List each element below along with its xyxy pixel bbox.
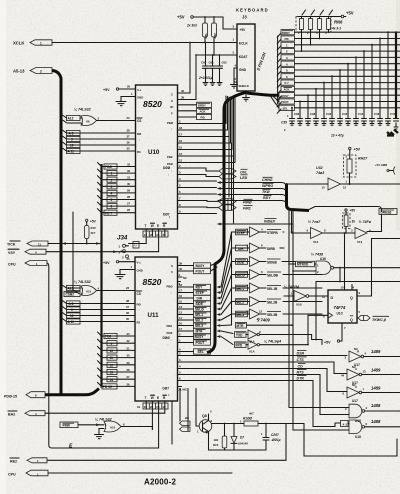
svg-text:24: 24 bbox=[163, 233, 167, 237]
svg-text:+5V: +5V bbox=[103, 261, 110, 265]
svg-text:DRESβ: DRESβ bbox=[381, 210, 392, 214]
wire VSY net bbox=[46, 250, 159, 253]
RN6 adjustment tick marks bbox=[302, 10, 333, 15]
svg-text:FIR1: FIR1 bbox=[243, 207, 251, 211]
wire reset net horizontal to right edge bbox=[315, 282, 400, 341]
svg-text:DIR: DIR bbox=[238, 247, 244, 251]
wire reset output routing bottom right bbox=[304, 424, 397, 457]
node POUT from U11 pin 40 bbox=[178, 267, 218, 274]
svg-text:BUSY: BUSY bbox=[281, 94, 289, 98]
svg-text:4x 3-1: 4x 3-1 bbox=[331, 27, 341, 31]
svg-text:NC: NC bbox=[183, 276, 187, 280]
node A10 to U10 RS2 pin 36 bbox=[61, 141, 136, 148]
svg-text:U12: U12 bbox=[357, 240, 363, 244]
node A11 to U11 pin 35 bbox=[61, 317, 135, 324]
svg-text:23: 23 bbox=[127, 116, 131, 120]
svg-text:4k7: 4k7 bbox=[248, 412, 254, 416]
svg-text:1488: 1488 bbox=[371, 419, 381, 424]
svg-text:44: 44 bbox=[341, 374, 345, 378]
svg-text:A5-13: A5-13 bbox=[13, 69, 25, 74]
svg-text:32: 32 bbox=[127, 339, 131, 343]
input flag FIR0 bbox=[219, 199, 253, 205]
svg-text:VSY: VSY bbox=[8, 251, 16, 255]
wire U12a out to U12b in bbox=[323, 232, 356, 234]
svg-text:SEL3: SEL3 bbox=[195, 324, 203, 328]
svg-text:18: 18 bbox=[179, 283, 183, 287]
node SEL lower from U11 bbox=[178, 348, 211, 355]
svg-text:30: 30 bbox=[127, 182, 131, 186]
buffer STEP 7409 bbox=[232, 227, 285, 237]
buffer SEL0 7409 bbox=[232, 270, 323, 280]
wires RN6 pulldown drops to bus lines bbox=[298, 30, 329, 52]
ground at J3 GND pin bbox=[231, 64, 238, 89]
svg-text:DTR: DTR bbox=[297, 376, 305, 380]
svg-text:11: 11 bbox=[110, 356, 114, 360]
node DSR bbox=[280, 350, 347, 355]
svg-text:MTRXD: MTRXD bbox=[297, 263, 309, 267]
svg-text:C35: C35 bbox=[281, 121, 287, 125]
NAND gate U16 half 7438 bbox=[311, 253, 334, 275]
svg-text:16: 16 bbox=[179, 294, 183, 298]
svg-text:C36: C36 bbox=[294, 112, 300, 116]
svg-text:2x 3k3: 2x 3k3 bbox=[186, 24, 197, 28]
svg-text:½ 74Fø: ½ 74Fø bbox=[359, 220, 372, 224]
svg-text:8520: 8520 bbox=[143, 277, 162, 287]
U11 serial rows DSR CTS CD RTS DTR bbox=[178, 352, 281, 381]
connector arrow CPU (E clock) bbox=[8, 261, 47, 267]
buffer SIDE 7409 bbox=[232, 257, 296, 267]
svg-text:25: 25 bbox=[156, 405, 160, 409]
receiver U17a 1489 bbox=[345, 347, 400, 367]
svg-text:39: 39 bbox=[181, 96, 185, 100]
svg-text:RDY: RDY bbox=[263, 196, 271, 200]
svg-text:+5V: +5V bbox=[90, 220, 97, 224]
diode D7 1N4148 bbox=[231, 424, 248, 451]
svg-text:BA2: BA2 bbox=[8, 413, 15, 417]
node CD bbox=[280, 363, 347, 391]
connector arrow AS-13 bbox=[13, 68, 52, 74]
svg-text:13: 13 bbox=[322, 186, 326, 190]
input flag FIR1 bbox=[219, 205, 253, 211]
svg-text:CPU: CPU bbox=[8, 473, 16, 477]
connector arrow PD0-15 bbox=[4, 392, 45, 399]
svg-text:12: 12 bbox=[343, 186, 347, 190]
svg-text:NC: NC bbox=[352, 383, 356, 387]
svg-text:3C: 3C bbox=[170, 105, 174, 109]
+5V to U10 Vcc pin 20 bbox=[103, 85, 136, 93]
CIA U11 8520 bbox=[135, 257, 178, 401]
svg-text:PDØ-15: PDØ-15 bbox=[4, 395, 17, 399]
svg-text:C47: C47 bbox=[390, 112, 396, 116]
svg-text:DIRB: DIRB bbox=[267, 247, 275, 251]
svg-text:9: 9 bbox=[71, 138, 73, 142]
svg-text:38: 38 bbox=[127, 129, 131, 133]
svg-text:SEL2: SEL2 bbox=[236, 300, 244, 304]
svg-text::: : bbox=[168, 343, 169, 347]
svg-text:E: E bbox=[157, 396, 159, 400]
filter capacitor row C36-C47 bbox=[290, 32, 396, 125]
svg-text:R10: R10 bbox=[91, 226, 97, 230]
riser band continuation downward bbox=[229, 137, 234, 224]
svg-text:W: W bbox=[151, 224, 154, 228]
wire FF bottom stub to +5V bbox=[324, 323, 346, 345]
wire FF preset feed from U12 line bbox=[344, 232, 346, 290]
svg-text:DØØ: DØØ bbox=[163, 336, 171, 340]
svg-text:SHIELD: SHIELD bbox=[239, 84, 249, 88]
svg-text::: : bbox=[168, 173, 169, 177]
wire +5V rail to J3 pin 3 bbox=[193, 16, 237, 29]
svg-text:26: 26 bbox=[127, 208, 131, 212]
buffer SEL2 7409 bbox=[232, 297, 323, 307]
svg-text:A 8: A 8 bbox=[69, 132, 74, 136]
svg-text:C62: C62 bbox=[222, 61, 228, 65]
connector arrow BAS bbox=[8, 411, 45, 417]
svg-text:RDY: RDY bbox=[196, 286, 204, 290]
svg-text:CD: CD bbox=[298, 364, 304, 368]
svg-text:PB9: PB9 bbox=[167, 324, 173, 328]
svg-text:19: 19 bbox=[144, 405, 148, 409]
capacitor C61 on KDAT bbox=[209, 54, 216, 85]
svg-text:PDØ: PDØ bbox=[105, 165, 112, 169]
svg-text::: : bbox=[171, 338, 172, 342]
wire U16 second input bbox=[292, 270, 316, 272]
svg-text:Q: Q bbox=[350, 296, 353, 300]
svg-text:13: 13 bbox=[179, 305, 183, 309]
U11 pin 21 NC stub bbox=[178, 387, 188, 392]
svg-text:TXD: TXD bbox=[236, 333, 243, 337]
svg-text:STEP: STEP bbox=[237, 231, 246, 235]
svg-text:2: 2 bbox=[111, 178, 113, 182]
node BUSY from U11 pin 39 bbox=[178, 262, 219, 269]
svg-text:SEL2: SEL2 bbox=[195, 319, 203, 323]
svg-text:D: D bbox=[331, 296, 334, 300]
vertical riser band from U10 to parallel bus bbox=[226, 96, 235, 163]
CIA U10 8520 bbox=[136, 85, 178, 229]
node P0 from U10 bbox=[178, 114, 212, 119]
svg-text:36: 36 bbox=[127, 141, 131, 145]
svg-text:Q: Q bbox=[350, 318, 353, 322]
svg-text:37: 37 bbox=[127, 135, 131, 139]
svg-text:10: 10 bbox=[70, 314, 74, 318]
ground at U10 GND pin 1 bbox=[116, 92, 136, 106]
node CS2 input bbox=[64, 291, 80, 296]
svg-text:ACK: ACK bbox=[284, 88, 290, 92]
wire U15b output to U11 W pin bbox=[121, 427, 152, 430]
wire U6 output to U10 CS pin 23 bbox=[97, 116, 136, 121]
svg-text:33: 33 bbox=[127, 163, 131, 167]
svg-text:PAØ: PAØ bbox=[167, 331, 174, 335]
svg-text:28: 28 bbox=[127, 368, 131, 372]
buffer SEL1 7409 bbox=[232, 283, 323, 293]
svg-text:PBØ: PBØ bbox=[167, 121, 174, 125]
svg-text:14: 14 bbox=[110, 378, 114, 382]
label C35 bbox=[281, 114, 289, 132]
svg-text:CTS: CTS bbox=[297, 358, 305, 362]
svg-text:15: 15 bbox=[179, 300, 183, 304]
left arrowheads into thick bus bbox=[217, 286, 221, 338]
svg-text:U1C: U1C bbox=[337, 312, 344, 316]
svg-text:CS: CS bbox=[137, 292, 141, 296]
svg-text:SIDE: SIDE bbox=[196, 302, 203, 306]
svg-text:PD 7: PD 7 bbox=[105, 211, 112, 215]
svg-text:RXD: RXD bbox=[236, 344, 243, 348]
wire U32 output to right bbox=[341, 183, 400, 185]
svg-text:U6: U6 bbox=[86, 120, 90, 124]
node RTS bbox=[280, 370, 349, 415]
svg-text:3: 3 bbox=[111, 185, 113, 189]
svg-text:12: 12 bbox=[179, 159, 183, 163]
buffer DIR 7409 bbox=[232, 243, 285, 253]
resistor RM27 in dashed box bbox=[344, 147, 369, 185]
ground at U11 GND pin 1 bbox=[115, 265, 135, 279]
svg-text:C46: C46 bbox=[374, 112, 380, 116]
svg-text:1489: 1489 bbox=[371, 368, 381, 373]
svg-text:17: 17 bbox=[179, 133, 183, 137]
wire RES line across bottom bbox=[47, 424, 286, 460]
node A9 to U11 pin 37 bbox=[61, 305, 135, 312]
svg-text:10: 10 bbox=[110, 349, 114, 353]
node DTR bbox=[280, 376, 341, 427]
svg-text:1489: 1489 bbox=[371, 349, 381, 354]
svg-text:9: 9 bbox=[111, 342, 113, 346]
svg-text:R3: R3 bbox=[137, 321, 141, 325]
svg-text:POUT: POUT bbox=[196, 341, 205, 345]
receiver U17b 1489 bbox=[341, 365, 400, 385]
svg-text:SELØ: SELØ bbox=[195, 308, 204, 312]
svg-text:27: 27 bbox=[127, 202, 131, 206]
OR gate U6 quarter 74LS32 bbox=[74, 108, 100, 127]
svg-text:9: 9 bbox=[71, 308, 73, 312]
svg-text:22: 22 bbox=[150, 233, 154, 237]
svg-text:OVL: OVL bbox=[240, 171, 247, 175]
node ACK from U10 bbox=[178, 108, 212, 113]
keyboard connector J3 bbox=[236, 8, 269, 92]
resistor R62 3k3 pullup bbox=[212, 17, 217, 56]
svg-text:11: 11 bbox=[179, 316, 182, 320]
U10 data bus fan PD0-PD7 bbox=[98, 163, 136, 216]
svg-text:J3: J3 bbox=[242, 15, 247, 20]
wire thick address bus from AS-13 down left side bbox=[52, 71, 61, 395]
svg-text:PRW: PRW bbox=[63, 424, 70, 428]
svg-text:S: S bbox=[171, 99, 173, 103]
svg-text:BUSY: BUSY bbox=[195, 335, 205, 339]
svg-text:TKØ: TKØ bbox=[262, 190, 270, 194]
svg-text:DSR: DSR bbox=[297, 351, 305, 355]
svg-text:PB9: PB9 bbox=[167, 155, 173, 159]
receiver U17c 1489 bbox=[343, 383, 400, 403]
pullup resistor 4k7 on TICK bbox=[84, 219, 96, 244]
svg-text:J34: J34 bbox=[117, 235, 128, 242]
wire thick data bus PD0-15 bbox=[45, 389, 99, 395]
wire TXD inverter output step bbox=[260, 335, 323, 345]
buffer SEL3 7409 bbox=[232, 309, 323, 319]
svg-text:KCLK: KCLK bbox=[239, 42, 249, 46]
svg-text:4: 4 bbox=[111, 192, 113, 196]
svg-text:35: 35 bbox=[127, 147, 131, 151]
svg-text:10: 10 bbox=[246, 310, 250, 314]
node DRESB bbox=[379, 209, 397, 215]
svg-text:R1ØØ: R1ØØ bbox=[243, 417, 253, 421]
U11 data bus fan PD8-PD15 bbox=[98, 332, 136, 389]
U10 parallel port rows P1-P7 to bus band bbox=[178, 120, 236, 163]
wire thick keyboard-to-parallel fan bbox=[247, 93, 279, 108]
svg-text:+5V: +5V bbox=[346, 11, 354, 16]
node A11 to U10 RS3 pin 35 bbox=[61, 147, 136, 154]
svg-text:U11: U11 bbox=[148, 312, 160, 319]
svg-text:28: 28 bbox=[127, 195, 131, 199]
node A9 to U10 RS1 pin 37 bbox=[61, 135, 136, 142]
svg-text:DIR: DIR bbox=[197, 297, 203, 301]
svg-text:C267: C267 bbox=[271, 433, 279, 437]
svg-text:SEL1B: SEL1B bbox=[267, 287, 278, 291]
connector arrow VSY bbox=[8, 249, 46, 255]
svg-text:DRDY: DRDY bbox=[198, 103, 206, 107]
svg-text:29: 29 bbox=[127, 361, 131, 365]
node 4 input box to U18b bbox=[341, 421, 350, 427]
svg-text:19: 19 bbox=[137, 405, 141, 409]
svg-text:T: T bbox=[145, 224, 147, 228]
svg-text:GND: GND bbox=[239, 68, 247, 72]
svg-text:U18: U18 bbox=[355, 435, 361, 439]
svg-text:+5V: +5V bbox=[103, 88, 110, 92]
svg-text:12: 12 bbox=[322, 295, 326, 299]
buffer U12b bbox=[351, 220, 372, 244]
svg-text:26: 26 bbox=[127, 382, 131, 386]
node TRK0 bbox=[217, 189, 287, 199]
svg-text:40: 40 bbox=[181, 89, 185, 93]
svg-text:4k7: 4k7 bbox=[90, 231, 96, 235]
transistor Q8 bbox=[185, 410, 213, 451]
wire FF Q output up to reset line bbox=[357, 239, 400, 297]
svg-text:18: 18 bbox=[179, 126, 183, 130]
resistor network RN6 bbox=[296, 11, 354, 33]
svg-text:⅋ 7409: ⅋ 7409 bbox=[256, 318, 270, 323]
svg-text:13: 13 bbox=[110, 371, 114, 375]
node WPRO bbox=[217, 183, 287, 193]
svg-text:½ 7×ø7: ½ 7×ø7 bbox=[308, 220, 321, 224]
wire U16 output loop to reset net bbox=[334, 267, 400, 283]
label +5V AMR connector bbox=[375, 163, 395, 175]
connector arrow XCLK bbox=[13, 40, 52, 46]
resistor R61 3k3 pullup bbox=[203, 17, 208, 43]
svg-text:U16: U16 bbox=[320, 257, 326, 261]
svg-text:S: S bbox=[171, 264, 173, 268]
svg-text:23: 23 bbox=[126, 286, 130, 290]
svg-text:17: 17 bbox=[179, 289, 183, 293]
node A12 input to U6 bbox=[61, 114, 82, 121]
node MTRXD input to U16 bbox=[288, 261, 316, 266]
capacitor C267 .001u bbox=[258, 423, 304, 450]
driver U18a 1488 bbox=[345, 403, 400, 423]
U11 floppy control rows with labels bbox=[178, 283, 211, 339]
svg-text:35: 35 bbox=[126, 317, 130, 321]
connector arrow CPU bottom bbox=[8, 470, 48, 476]
resistor R100 4k7 bbox=[240, 412, 258, 427]
svg-text:38: 38 bbox=[126, 299, 130, 303]
U11 NC stubs bbox=[178, 273, 188, 286]
ground at J3 shield bbox=[243, 91, 250, 101]
svg-text:BC: BC bbox=[185, 416, 189, 420]
wire CPU bottom line bbox=[48, 472, 232, 474]
svg-text:FIRØ: FIRØ bbox=[243, 200, 252, 204]
wire vertical net x289 bbox=[289, 210, 349, 408]
svg-text:+5V: +5V bbox=[177, 15, 185, 20]
svg-text:POUT: POUT bbox=[281, 100, 289, 104]
svg-text:6: 6 bbox=[111, 205, 113, 209]
svg-text:U10: U10 bbox=[148, 149, 160, 156]
svg-text:30: 30 bbox=[127, 354, 131, 358]
svg-text:RTS: RTS bbox=[297, 370, 305, 374]
svg-text:WPRO: WPRO bbox=[262, 184, 273, 188]
svg-text::: : bbox=[171, 169, 172, 173]
svg-text:40: 40 bbox=[179, 267, 183, 271]
capacitor C60 on KCLK bbox=[201, 42, 209, 86]
svg-text:27: 27 bbox=[127, 375, 131, 379]
svg-text:R61: R61 bbox=[204, 33, 208, 39]
node TKWC flag from FF Qbar bbox=[357, 315, 389, 321]
svg-text:¼ 74LS32: ¼ 74LS32 bbox=[74, 108, 91, 112]
wire TICK net with end arrowheads bbox=[48, 242, 100, 245]
svg-text:RE2: RE2 bbox=[10, 460, 17, 464]
junction dots on bus drops bbox=[291, 31, 389, 109]
svg-text:½ 7438: ½ 7438 bbox=[311, 253, 323, 257]
svg-text:12: 12 bbox=[259, 310, 263, 314]
svg-text:SEL1: SEL1 bbox=[236, 287, 244, 291]
U11 lower right vertical drops bbox=[172, 389, 199, 445]
svg-text:U15: U15 bbox=[86, 290, 92, 294]
svg-text:P 7: P 7 bbox=[285, 81, 290, 85]
node DRDY from U10 bbox=[178, 102, 212, 107]
filter capacitor C47 right edge (thick drop) bbox=[394, 31, 399, 133]
svg-text:10: 10 bbox=[179, 322, 183, 326]
svg-text:C42: C42 bbox=[342, 112, 348, 116]
svg-text:RN⁡6: RN⁡6 bbox=[334, 20, 343, 25]
svg-text:SIDEB: SIDEB bbox=[267, 261, 277, 265]
wire vertical net x293 bbox=[293, 210, 349, 430]
node A13 input bbox=[61, 284, 81, 290]
U10 PA rows to control signals bbox=[178, 164, 219, 214]
svg-text:POUT: POUT bbox=[196, 270, 205, 274]
wire left vertical feed to U15 input bbox=[73, 212, 79, 294]
svg-text:13: 13 bbox=[363, 370, 367, 374]
svg-text:13: 13 bbox=[179, 152, 183, 156]
inverter TXD bbox=[235, 330, 262, 344]
ground rail under transistor circuit bbox=[209, 449, 267, 451]
svg-text:31: 31 bbox=[127, 176, 131, 180]
svg-text:1488: 1488 bbox=[371, 403, 381, 408]
output flag OVL bbox=[206, 169, 248, 175]
connector arrow RES bbox=[10, 458, 47, 464]
svg-text:A 11: A 11 bbox=[68, 320, 75, 324]
svg-text:XCLK: XCLK bbox=[13, 40, 24, 45]
connector arrow TICK bbox=[7, 241, 48, 247]
svg-text:CS: CS bbox=[137, 119, 141, 123]
svg-text:U32: U32 bbox=[316, 166, 323, 170]
inverter U1B quarter 74F04 bbox=[284, 285, 309, 307]
svg-text:SEL: SEL bbox=[198, 350, 204, 354]
svg-text:SEL1: SEL1 bbox=[195, 313, 203, 317]
wire collector line with R100 bbox=[212, 423, 245, 425]
node A8 to U10 RS0 pin 38 bbox=[61, 129, 136, 136]
+5V supply for keyboard pullups bbox=[177, 15, 193, 20]
svg-text:PAØ: PAØ bbox=[167, 162, 174, 166]
buffer U12a half 7407 bbox=[307, 220, 327, 244]
svg-text:19: 19 bbox=[144, 233, 148, 237]
wire RXD inverter output to FF clock bbox=[260, 344, 309, 346]
svg-text:1k: 1k bbox=[352, 220, 356, 224]
svg-text:12: 12 bbox=[179, 311, 183, 315]
svg-text:ACK: ACK bbox=[200, 109, 206, 113]
